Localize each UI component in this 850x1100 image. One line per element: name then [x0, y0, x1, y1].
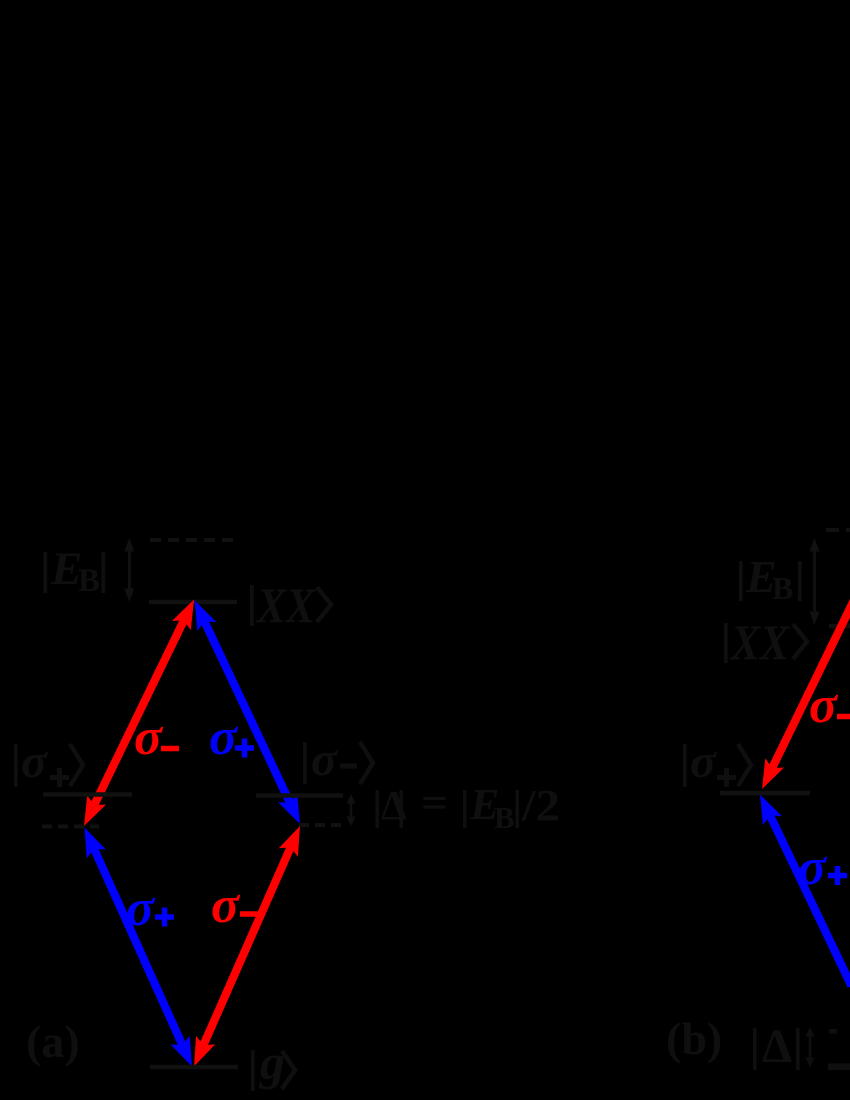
- label |sigma_+> (b): [683, 735, 751, 788]
- label |g> (a): [251, 1034, 295, 1091]
- svg-text:σ: σ: [21, 735, 48, 788]
- svg-text:σ: σ: [798, 839, 828, 896]
- svg-text:Δ: Δ: [762, 1020, 792, 1073]
- annotation |Delta| with small arrow (b), clipped at right: [753, 1020, 850, 1073]
- svg-text:σ: σ: [209, 709, 239, 766]
- svg-text:(a): (a): [26, 1016, 80, 1067]
- label |XX> (b): [724, 614, 807, 670]
- label sigma_plus (b): [798, 839, 847, 896]
- svg-text:B: B: [78, 563, 100, 599]
- XX level line (b), clipped: [829, 624, 850, 629]
- svg-text:(b): (b): [666, 1013, 722, 1064]
- svg-text:XX: XX: [729, 614, 790, 670]
- label sigma_minus upper (a): [134, 709, 179, 766]
- red arrow XX to left level (a), double-headed: [84, 600, 194, 827]
- sigma level line (b): [720, 791, 810, 796]
- ground level line (a): [150, 1065, 238, 1070]
- svg-text:σ: σ: [134, 709, 164, 766]
- dashed virtual level above XX (b), clipped at right: [826, 528, 850, 532]
- red arrow from XX (offscreen) to sigma level (b): [762, 758, 784, 789]
- label sigma_plus upper (a): [209, 709, 254, 766]
- red arrow right level to ground (a), double-headed: [194, 826, 300, 1067]
- annotation |Delta| = |E_B|/2 (a): [376, 780, 561, 835]
- label sigma_minus lower (a): [211, 877, 259, 934]
- blue arrow from ground (offscreen) to sigma level (b): [760, 795, 782, 826]
- svg-text:σ: σ: [126, 880, 156, 937]
- right exciton solid level (a): [256, 793, 343, 798]
- label |sigma_+> left (a): [14, 735, 83, 788]
- label |XX> (a): [250, 577, 331, 633]
- svg-text:g: g: [259, 1034, 285, 1090]
- E_B measurement arrow (a): [124, 538, 134, 602]
- blue arrow left level to ground (a), double-headed: [85, 828, 193, 1067]
- left exciton dashed shifted level (a): [42, 825, 99, 829]
- svg-text:σ: σ: [809, 677, 839, 734]
- blue arrow XX to right level (a), double-headed: [195, 600, 301, 824]
- E_B measurement arrow (b): [809, 538, 819, 625]
- label |E_B| (a): [44, 543, 106, 599]
- small delta arrow between solid and dashed right level (a): [347, 794, 356, 826]
- svg-text:B: B: [494, 800, 515, 835]
- svg-text:XX: XX: [255, 577, 316, 633]
- right exciton dashed shifted level (a): [299, 823, 342, 827]
- svg-text:σ: σ: [690, 735, 717, 788]
- label sigma_minus (b): [809, 677, 850, 734]
- XX level line (a): [149, 600, 237, 605]
- svg-text:/2: /2: [521, 781, 560, 830]
- dashed virtual level above XX (a): [150, 538, 238, 542]
- label |sigma_-> right (a): [303, 733, 373, 786]
- label sigma_plus lower (a): [126, 880, 174, 937]
- svg-text:B: B: [772, 570, 793, 606]
- label |E_B| (b): [739, 551, 802, 606]
- left exciton solid level (a): [43, 792, 132, 797]
- svg-text:σ: σ: [311, 733, 338, 786]
- svg-text:=: =: [421, 781, 448, 827]
- svg-text:σ: σ: [211, 877, 241, 934]
